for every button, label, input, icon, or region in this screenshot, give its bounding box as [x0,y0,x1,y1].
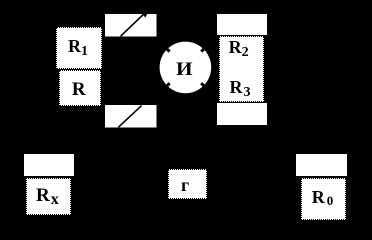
switch K2 [105,105,157,128]
notch bottom-left [163,83,170,90]
resistor r (г) [168,169,207,199]
wire stub bottom-right rect [217,103,267,125]
resistor R1 [56,27,102,69]
galvanometer U1 (И) [159,41,213,95]
switch K1 [105,14,157,37]
wire stub top-right rect [217,14,267,35]
notch top-right [201,45,208,52]
resistors R2 / R3 box [219,36,264,102]
notch top-left [163,45,170,52]
wire stub above Rx [24,154,74,176]
wire stub above R0 [296,154,347,176]
resistor R0 [301,178,346,220]
resistor R [59,70,101,106]
notch bottom-right [201,83,208,90]
resistor Rx [26,178,71,215]
